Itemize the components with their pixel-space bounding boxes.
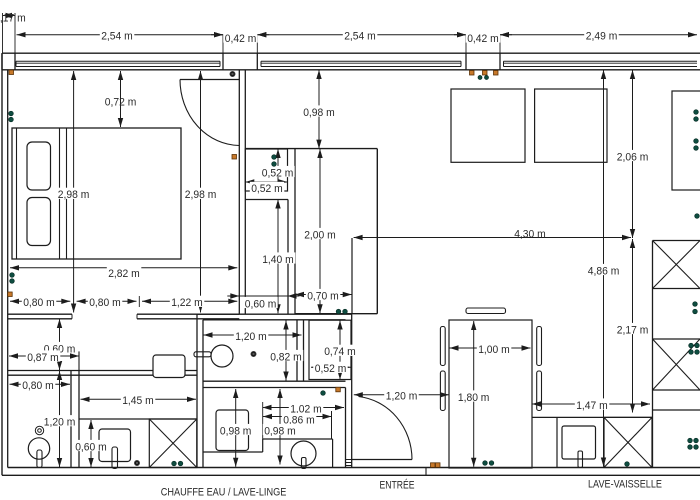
hall bottom line [295,313,377,315]
laundry faucet bar [112,447,118,469]
svg-text:2,06 m: 2,06 m [617,151,649,163]
hall top wall line [245,148,377,150]
dimension 2,82 m [10,267,237,269]
kitchen sink basin [562,426,596,459]
svg-text:0,74 m: 0,74 m [324,346,356,358]
living table 1 [451,89,525,162]
outlet pair entry floor [431,463,436,468]
dimension 1,02 m [263,407,345,409]
kitchen fridge X diagonals [653,241,700,289]
dimension 0,42 m first [211,34,223,36]
extension ticks pier 2 [465,35,467,54]
svg-text:4,30 m: 4,30 m [514,228,546,240]
socket dot pier1 [230,71,235,76]
vanity right edge [332,439,334,468]
dimension 0,60 m shower [90,420,92,467]
bed outline [12,128,181,259]
dimension 1,22 m [142,300,237,302]
svg-text:1,80 m: 1,80 m [458,392,490,404]
svg-text:2,98 m: 2,98 m [185,189,217,201]
dimension 0,80 m washroom [10,383,71,385]
hall closet box [245,149,287,191]
dimension 0,80 m bedroom wall [10,300,70,302]
svg-text:0,42 m: 0,42 m [225,33,256,45]
bed inner line 2 [66,128,68,259]
kitchen oven X diagonals [653,339,700,390]
top-left wall corner pier [1,53,3,70]
svg-text:0,72 m: 0,72 m [105,96,137,108]
left washbasin [28,438,49,459]
entry door swing arc [359,397,413,460]
outlet left wall mid [8,292,13,297]
svg-text:2,17 m: 2,17 m [617,324,649,336]
dimension 0,52 m closet vertical [277,149,279,191]
svg-text:1,22 m: 1,22 m [171,297,203,309]
dimension 2,98 m right [200,71,202,313]
svg-text:2,82 m: 2,82 m [108,268,140,280]
svg-text:0,98 m: 0,98 m [264,425,296,437]
bathroom/hall wall line A [287,200,289,314]
kitchen column divider 3 [653,389,700,391]
svg-text:0,52 m: 0,52 m [315,363,347,375]
island chair bar right 2 [537,371,542,411]
dimension 0,52 m closet2 [311,366,351,368]
dimension 0,74 m [339,321,341,380]
dimension 0,80 m bedroom door [77,300,137,302]
dimension 0,60 m hall [227,295,239,297]
svg-text:0,80 m: 0,80 m [89,297,121,309]
svg-text:4,86 m: 4,86 m [588,265,620,277]
kitchen island [449,320,532,468]
svg-text:2,54 m: 2,54 m [101,31,133,43]
toilet flush bar [194,352,211,357]
dimension 1,20 m washroom [59,371,61,467]
bathroom top wall band [197,313,352,315]
outlet bathroom wall [336,387,341,392]
shower shelf line [79,418,197,420]
bedroom bottom wall right segment [137,313,239,315]
dishwasher diagonal 1 [604,417,652,467]
vanity counter step [203,451,263,453]
left washbasin faucet [37,450,42,468]
bathroom sink faucet [302,458,307,469]
dimension 0,87 m [9,355,79,357]
toilet bowl [211,345,233,367]
svg-text:0,52 m: 0,52 m [251,183,283,195]
top exterior wall inner line [2,69,700,71]
outlet symbol top-left wall [9,70,14,75]
closet niche shelf line [245,199,288,201]
socket dots hall bottom [336,309,341,314]
shower tray diagonal 2 [149,419,197,468]
dimension 0,60 m small room [59,319,61,370]
water heater [153,355,185,378]
bottom exterior wall inner line [8,467,700,469]
outlets below pier2 [470,71,475,76]
bed inner line 1 [59,128,61,259]
svg-text:2,00 m: 2,00 m [304,229,336,241]
dimension 0,98 m bath [279,389,281,465]
dimension 4,30 m [354,237,631,239]
svg-text:2,98 m: 2,98 m [58,189,90,201]
socket dots left wall upper [9,111,14,116]
dimension 2,54 m first [17,34,224,36]
dimension 0,82 m [285,321,287,381]
laundry partition wall double [70,371,72,468]
svg-text:2,49 m: 2,49 m [586,31,618,43]
svg-text:0,60 m: 0,60 m [245,298,276,310]
dimension 1,00 m island [450,347,531,349]
svg-text:0,82 m: 0,82 m [270,351,302,363]
svg-text:LAVE-VAISSELLE: LAVE-VAISSELLE [588,478,662,490]
island chair bar left 1 [440,327,445,366]
wall WC/closet divider [296,320,298,381]
dimension 4,86 m [603,70,605,467]
svg-text:ENTRÉE: ENTRÉE [380,478,415,491]
bottom exterior wall outer line [2,474,700,476]
ceiling light symbol [35,426,43,434]
kitchen column divider 2 [653,338,700,340]
kitchen column divider 1 [653,288,700,290]
socket dot right wall [695,214,700,219]
bottom wall door jamb tick [425,468,427,476]
top exterior wall outer line [2,52,700,54]
svg-text:0,80 m: 0,80 m [22,380,54,392]
socket dot laundry wall [134,460,139,465]
tick 1,02/0,86 left [262,402,264,439]
outlet near bedroom door [232,155,237,160]
bathroom right wall double [345,388,347,468]
socket dots below pier2 [478,76,482,80]
living table 2 [535,89,607,162]
dimension 1,47 m [532,403,650,405]
bedroom bottom wall left segment [8,313,72,315]
bed headboard line [16,128,18,259]
socket dots hall closet [272,155,277,160]
socket dots entry floor [483,461,488,466]
wall pier between window W2 and W3 [466,53,500,70]
tick for bottom bedroom dims [138,296,140,307]
bathroom left wall double [196,314,198,467]
socket dots kitchen box2 [693,302,698,307]
svg-text:1,00 m: 1,00 m [478,344,510,356]
entry door leaf [352,459,412,461]
duct wall at living room corner [351,238,353,314]
island top bar [466,308,506,314]
svg-text:0,60 m: 0,60 m [75,441,107,453]
svg-text:1,47 m: 1,47 m [576,400,608,412]
dimension 2,06 m [632,70,634,238]
socket dot bathroom [321,391,326,396]
svg-text:1,20 m: 1,20 m [235,331,267,343]
dimension 1,40 m [277,200,279,314]
bedroom door swing arc [180,80,239,146]
dimension 2,17 m [632,239,634,413]
socket dots right furniture [694,110,699,115]
WC bottom wall band [203,380,346,382]
laundry washing machine [99,429,131,462]
entry threshold marks [346,459,352,461]
svg-text:1,40 m: 1,40 m [262,254,294,266]
dimension 0,42 m second [454,34,466,36]
extension ticks pier 1 [222,35,224,54]
small room right tick [78,351,80,370]
washing machine [216,410,249,451]
svg-text:1,45 m: 1,45 m [122,395,154,407]
island chair bar left 2 [440,371,445,411]
svg-text:CHAUFFE EAU / LAVE-LINGE: CHAUFFE EAU / LAVE-LINGE [161,486,286,498]
extension ticks top-left 0,17 [2,13,4,53]
svg-text:1,20 m: 1,20 m [44,417,76,429]
svg-text:0,87 m: 0,87 m [27,352,59,364]
socket dot dishwasher [625,462,630,467]
dishwasher diagonal 2 [604,417,652,467]
left exterior wall outer line [1,53,3,475]
window W2 glazing [261,60,461,62]
svg-text:1,20 m: 1,20 m [386,391,418,403]
living/hall wall [376,149,378,314]
socket dots left wall lower [10,273,15,278]
shower tray [149,419,197,468]
svg-text:2,54 m: 2,54 m [344,31,376,43]
kitchen column divider 4 [653,409,700,411]
bed pillow 1 [27,142,51,190]
closet 0.52x0.74 box [309,320,351,379]
svg-text:0,70 m: 0,70 m [307,290,339,302]
dimension 2,98 m left [73,71,75,313]
socket dots shower [172,461,177,466]
dimension 1,20 m WC [204,334,302,336]
vanity tick [331,411,333,439]
WC outlet dot [251,351,256,356]
kitchen sink faucet [578,451,583,468]
dimension 0,72 m [120,71,122,127]
dimension 1,45 m [81,398,197,400]
left exterior wall inner line [7,70,9,468]
dimension 0,52 m closet horizontal [245,181,287,183]
dimension 0,98 m hall top [318,70,320,149]
dimension 0,86 m [263,416,332,418]
svg-text:0,80 m: 0,80 m [23,297,55,309]
bathroom/hall wall line B [294,149,296,314]
socket dots kitchen box4 [688,438,693,443]
window W3 glazing [504,60,698,62]
wall pier between window W1 and W2 [223,53,257,70]
kitchen counter top line [532,416,653,418]
svg-text:0,17 m: 0,17 m [0,12,26,24]
dimension 0,17 m [3,15,15,17]
shower tray diagonal 1 [149,419,197,468]
window W1 glazing [16,60,220,62]
svg-text:0,98 m: 0,98 m [220,425,252,437]
svg-text:0,52 m: 0,52 m [262,167,294,179]
bed pillow 2 [27,198,51,246]
dimension 0,70 m [295,294,352,296]
wall bedroom/hall vertical double [238,70,240,314]
svg-text:0,98 m: 0,98 m [303,107,335,119]
dimension 2,54 m second [257,34,466,36]
bathroom sink bowl [291,441,316,466]
kitchen counter divider [556,417,558,467]
dimension 2,00 m [319,149,321,313]
dishwasher box [604,417,652,467]
svg-text:0,42 m: 0,42 m [467,33,499,45]
dimension 0,98 m laundry [235,389,237,467]
dimension 1,20 m entry [354,394,449,396]
bedroom door leaf [180,79,239,81]
island chair bar right 1 [537,327,542,366]
dimension 1,80 m island [473,321,475,467]
dimension 2,49 m [500,34,697,36]
right wall furniture [672,91,700,190]
kitchen column outline [652,241,654,468]
laundry room top wall band [8,370,197,372]
socket dots kitchen box3 [689,343,694,348]
